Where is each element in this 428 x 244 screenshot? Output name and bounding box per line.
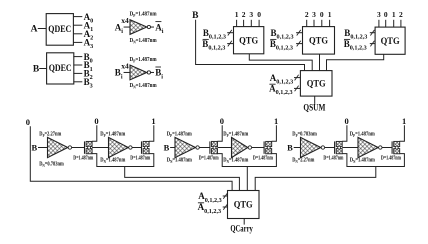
svg-text:DP=0.783nm: DP=0.783nm (292, 132, 317, 139)
node A3 label (84, 38, 94, 51)
value label DN=0.783nm (INV1) (39, 162, 64, 169)
wire Ai to inverter (124, 26, 130, 28)
wire TG5 output to INV6 (342, 147, 358, 149)
pin number 3 of QTG1 (249, 10, 253, 19)
wire QDEC A output pin A2 (73, 33, 82, 35)
wire QTG3 top pin (385, 20, 387, 27)
inverter INV4 (232, 137, 248, 157)
node A1 label (84, 20, 94, 33)
pass transistor gate TG1 (85, 141, 93, 153)
wire QDEC A output pin A0 (73, 16, 82, 18)
value label D=1.487nm (TG4) (253, 155, 273, 161)
svg-text:1: 1 (274, 116, 278, 126)
value label D=1.487nm (TG5) (323, 155, 343, 161)
svg-text:D=1.487nm: D=1.487nm (323, 155, 343, 161)
svg-text:B: B (31, 142, 37, 152)
inverter U3 output bubble (147, 25, 150, 28)
value label Dp=1.487nm (INV2) (100, 132, 125, 139)
input bus B0123-bar to QTG2 (270, 39, 303, 52)
wire QTG3 top pin (378, 20, 380, 27)
svg-text:2: 2 (305, 10, 309, 19)
svg-text:0: 0 (384, 10, 388, 19)
wire control 0 to TG3 (218, 125, 223, 141)
svg-text:3: 3 (312, 10, 316, 19)
wire INV4 to TG4 (252, 147, 265, 149)
value label D=1.487nm (TG6) (381, 155, 401, 161)
wire QTG2 output to QSUM QTG (319, 54, 321, 71)
value label DN=1.487nm (inverter Bi) (130, 83, 157, 90)
value label DN=1.487nm (INV2) (100, 158, 125, 165)
svg-text:D=1.487nm: D=1.487nm (381, 155, 401, 161)
value label Dp=0.783nm (INV5) (292, 132, 317, 139)
output Ai-bar label (155, 22, 164, 35)
svg-text:0: 0 (344, 116, 348, 126)
svg-text:3: 3 (249, 10, 253, 19)
svg-text:DN=0.783nm: DN=0.783nm (39, 162, 64, 169)
wire U-link TG3 to TG4 (group 2) (218, 154, 277, 167)
wire QTG2 top pin (329, 20, 331, 27)
value label Dp=1.487nm (INV4) (223, 132, 248, 139)
svg-text:1: 1 (392, 10, 396, 19)
inverter INV2 (109, 137, 129, 157)
inverter U4 output bubble (147, 71, 150, 74)
input Bi label (115, 68, 123, 81)
svg-text:DP=1.487nm: DP=1.487nm (100, 132, 125, 139)
pass transistor gate TG6 (392, 141, 400, 153)
svg-text:B: B (164, 142, 170, 152)
svg-text:QTG: QTG (307, 79, 326, 89)
svg-text:1: 1 (235, 10, 239, 19)
wire control 1 to TG6 (400, 125, 405, 141)
wire QTG2 top pin (306, 20, 308, 27)
wire TG1 output to INV2 (92, 147, 108, 149)
svg-text:DN=1.487nm: DN=1.487nm (130, 38, 157, 45)
wire QDEC B output pin B2 (73, 72, 82, 74)
inverter U3 (x4 buffer Ai) (121, 16, 147, 34)
svg-text:0: 0 (26, 117, 30, 127)
pin number 2 of QTG1 (242, 10, 246, 19)
svg-text:DP=2.27nm: DP=2.27nm (39, 132, 61, 139)
svg-text:D=1.487nm: D=1.487nm (253, 155, 273, 161)
wire group1 tap to QCarry QTG pin2 (125, 167, 240, 191)
input B label (group 3) (287, 142, 293, 152)
svg-text:DN=1.487nm: DN=1.487nm (167, 158, 192, 165)
node A2 label (84, 29, 94, 42)
svg-text:DN=2.27nm: DN=2.27nm (292, 158, 314, 165)
node B3 label (84, 77, 93, 90)
svg-text:0: 0 (320, 10, 324, 19)
node 0 constant (far left) (26, 117, 30, 127)
wire QDEC A output pin A3 (73, 41, 82, 43)
node 1 control of TG2 (151, 116, 155, 126)
svg-text:1: 1 (151, 116, 155, 126)
value label DN=1.487nm (INV3) (167, 158, 192, 165)
block QTG U7 (B permutation 3) (375, 27, 405, 54)
inverter INV5 (301, 137, 321, 157)
block QTG U5 (B permutation 1) (234, 27, 264, 54)
wire QDEC B output pin B1 (73, 64, 82, 66)
input bus A0123-bar to QSUM QTG (269, 84, 300, 97)
input bus A0123-bar to QCarry QTG (198, 202, 228, 215)
wire B to QDEC (39, 68, 46, 70)
wire B to inverter INV3 (170, 147, 175, 149)
value label Dp=1.487nm (INV3) (167, 132, 192, 139)
wire B to inverter INV1 (38, 147, 48, 149)
input Ai label (115, 22, 124, 35)
svg-text:QTG: QTG (309, 36, 328, 46)
svg-text:2: 2 (242, 10, 246, 19)
inverter INV3 (175, 137, 196, 157)
svg-text:2: 2 (399, 10, 403, 19)
value label D=1.487nm (TG3) (199, 155, 219, 161)
svg-text:DN=1.487nm: DN=1.487nm (350, 158, 375, 165)
pin number 3 of QTG2 (312, 10, 316, 19)
wire INV5 to TG5 (325, 147, 335, 149)
pin number 2 of QTG3 (399, 10, 403, 19)
wire A to QDEC (38, 28, 46, 30)
node 1 control of TG4 (274, 116, 278, 126)
input bus B0123 to QTG1 (203, 28, 234, 41)
svg-text:D=1.487nm: D=1.487nm (199, 155, 219, 161)
svg-text:QTG: QTG (381, 36, 400, 46)
wire inverter to Ai-bar (151, 26, 155, 28)
svg-text:QSUM: QSUM (303, 102, 325, 112)
svg-text:DN=1.487nm: DN=1.487nm (130, 83, 157, 90)
pin number 1 of QTG1 (235, 10, 239, 19)
block QDEC U1 (A decoder) (46, 14, 73, 46)
wire QTG1 top pin (243, 20, 245, 27)
svg-text:B: B (287, 142, 293, 152)
input bus A0123 to QCarry QTG (198, 191, 227, 204)
value label Dp=1.487nm (inverter Ai) (130, 11, 157, 18)
pin number 1 of QTG2 (328, 10, 332, 19)
inverter INV1 (48, 137, 68, 157)
inverter INV2 output bubble (129, 146, 132, 149)
pin number 0 of QTG3 (384, 10, 388, 19)
node 0 control of TG3 (220, 116, 224, 126)
value label DN=1.487nm (INV4) (223, 158, 248, 165)
wire QTG1 top pin (236, 20, 238, 27)
node B input label (192, 11, 199, 21)
svg-text:DP=1.487nm: DP=1.487nm (223, 132, 248, 139)
node QCarry output label (230, 224, 253, 234)
svg-text:0: 0 (220, 116, 224, 126)
svg-text:1: 1 (402, 116, 406, 126)
value label DN=1.487nm (INV6) (350, 158, 375, 165)
node B1 label (84, 60, 93, 73)
wire TG3 output to INV4 (218, 147, 232, 149)
svg-text:B: B (192, 11, 199, 21)
wire QCarry output stub (243, 219, 245, 225)
input A label (31, 25, 38, 35)
wire INV3 to TG3 (199, 147, 210, 149)
wire control 0 to TG1 (92, 125, 97, 141)
svg-text:x4: x4 (121, 62, 129, 71)
input bus A0123 to QSUM QTG (270, 73, 301, 86)
svg-text:D=1.487nm: D=1.487nm (130, 155, 150, 161)
block QDEC U2 (B decoder) (47, 53, 74, 84)
wire B down to QSUM QTG (196, 20, 305, 71)
input bus B0123 to QTG3 (344, 28, 375, 41)
wire INV6 to TG6 (382, 147, 392, 149)
wire Bi to inverter (124, 71, 130, 73)
wire B to inverter INV5 (294, 147, 301, 149)
input bus B0123-bar to QTG1 (202, 39, 233, 52)
wire QTG1 top pin (258, 20, 260, 27)
input B label (33, 64, 40, 74)
svg-text:0: 0 (257, 10, 261, 19)
svg-text:DN=1.487nm: DN=1.487nm (223, 158, 248, 165)
inverter INV1 output bubble (68, 146, 71, 149)
wire U-link TG1 to TG2 (group 1) (92, 154, 154, 167)
svg-text:DP=1.487nm: DP=1.487nm (167, 132, 192, 139)
wire 0-rail to QCarry QTG pin1 (30, 126, 232, 190)
value label DN=2.27nm (INV5) (292, 158, 314, 165)
wire group2 tap to QCarry QTG pin3 (246, 167, 248, 191)
inverter INV4 output bubble (248, 146, 251, 149)
svg-text:D=1.487nm: D=1.487nm (73, 155, 93, 161)
node B0 label (84, 52, 93, 65)
block QTG U9 (QCarry stage) (228, 191, 260, 219)
pass transistor gate TG5 (335, 141, 343, 153)
input B label (group 1) (31, 142, 37, 152)
wire QTG2 top pin (321, 20, 323, 27)
value label Dp=2.27nm (INV1) (39, 132, 61, 139)
node B2 label (84, 69, 93, 82)
svg-text:DP=1.487nm: DP=1.487nm (130, 57, 157, 64)
svg-text:QTG: QTG (234, 200, 253, 210)
wire QTG3 top pin (393, 20, 395, 27)
wire U-link TG5 to TG6 (group 3) (342, 154, 404, 167)
pass transistor gate TG3 (210, 141, 218, 153)
wire QTG3 output to QSUM QTG (327, 54, 384, 70)
svg-text:1: 1 (328, 10, 332, 19)
svg-text:QDEC: QDEC (49, 64, 72, 74)
node 0 control of TG5 (344, 116, 348, 126)
input B label (group 2) (164, 142, 170, 152)
block QTG U8 (QSUM stage) (300, 71, 332, 97)
svg-text:x4: x4 (121, 16, 129, 25)
input bus B0123 to QTG2 (271, 28, 303, 41)
svg-text:A: A (31, 25, 38, 35)
wire control 0 to TG5 (342, 125, 347, 141)
value label DN=1.487nm (inverter Ai) (130, 38, 157, 45)
wire control 1 to TG2 (149, 125, 154, 141)
value label D=1.487nm (TG2) (130, 155, 150, 161)
pass transistor gate TG4 (264, 141, 272, 153)
inverter INV3 output bubble (196, 146, 199, 149)
node 1 control of TG6 (402, 116, 406, 126)
inverter INV6 (358, 137, 378, 157)
pin number 0 of QTG2 (320, 10, 324, 19)
wire QDEC B output pin B3 (73, 81, 82, 83)
wire inverter to Bi-bar (151, 71, 155, 73)
node QSUM output label (303, 102, 325, 112)
output Bi-bar label (155, 67, 163, 80)
value label Dp=1.487nm (INV6) (350, 132, 375, 139)
wire INV2 to TG2 (132, 147, 141, 149)
svg-text:DP=1.487nm: DP=1.487nm (130, 11, 157, 18)
svg-text:DN=1.487nm: DN=1.487nm (100, 158, 125, 165)
value label D=1.487nm (TG1) (73, 155, 93, 161)
svg-text:DP=1.487nm: DP=1.487nm (350, 132, 375, 139)
pin number 3 of QTG3 (377, 10, 381, 19)
wire QTG2 top pin (313, 20, 315, 27)
svg-text:QCarry: QCarry (230, 224, 253, 234)
pin number 0 of QTG1 (257, 10, 261, 19)
value label Dp=1.487nm (inverter Bi) (130, 57, 157, 64)
svg-text:QTG: QTG (239, 35, 258, 45)
wire QSUM output stub (314, 96, 316, 104)
inverter INV5 output bubble (321, 146, 324, 149)
node 0 control of TG1 (94, 116, 98, 126)
wire INV1 to TG1 (72, 147, 85, 149)
pass transistor gate TG2 (142, 141, 150, 153)
pin number 1 of QTG3 (392, 10, 396, 19)
input bus B0123-bar to QTG3 (344, 39, 375, 52)
wire QTG3 top pin (400, 20, 402, 27)
wire QDEC A output pin A1 (73, 24, 82, 26)
block QTG U6 (B permutation 2) (303, 27, 335, 54)
wire QTG1 top pin (250, 20, 252, 27)
wire control 1 to TG4 (272, 125, 277, 141)
wire QTG1 output to QSUM QTG (249, 54, 312, 71)
pin number 2 of QTG2 (305, 10, 309, 19)
wire QDEC B output pin B0 (73, 56, 82, 58)
svg-text:B: B (33, 64, 40, 74)
svg-text:3: 3 (377, 10, 381, 19)
svg-text:QDEC: QDEC (48, 25, 71, 35)
svg-text:0: 0 (94, 116, 98, 126)
node A0 label (84, 12, 94, 25)
inverter INV6 output bubble (379, 146, 382, 149)
wire group3 tap to QCarry QTG pin4 (255, 167, 376, 191)
inverter U4 (x4 buffer Bi) (121, 62, 147, 80)
